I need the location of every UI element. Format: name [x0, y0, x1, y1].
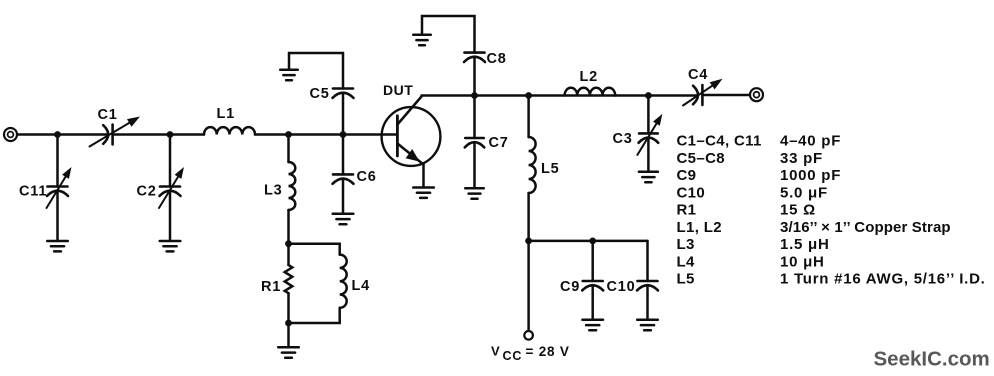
capacitor C2 arrow [159, 167, 184, 208]
label C4 [688, 67, 708, 83]
wire C7 lower [473, 142, 476, 188]
label DUT [383, 82, 413, 98]
label C1 [98, 107, 118, 123]
capacitor C10 plates [637, 281, 658, 290]
svg-text:C6: C6 [357, 169, 377, 185]
wire C9 upper [591, 241, 594, 281]
ground below C5 wire [280, 70, 298, 80]
wire to ground below R1 [287, 323, 290, 347]
capacitor C1 arrow [90, 117, 141, 147]
wire C9 lower [591, 285, 594, 319]
node C2 junction [167, 131, 174, 138]
label C6 [357, 169, 377, 185]
ground below C9 [582, 320, 603, 330]
label C8 [487, 51, 507, 67]
node bottom rail [525, 238, 532, 245]
svg-text:33 pF: 33 pF [780, 150, 823, 167]
node L5 junction [525, 92, 532, 99]
svg-text:C8: C8 [487, 51, 507, 67]
capacitor C2 plates [160, 187, 181, 196]
wire R1 to bottom node [287, 293, 290, 323]
svg-text:5.0 μF: 5.0 μF [780, 184, 828, 201]
svg-text:C7: C7 [489, 135, 509, 151]
svg-text:1 Turn #16 AWG, 5/16’’ I.D.: 1 Turn #16 AWG, 5/16’’ I.D. [780, 271, 986, 288]
label L3 [264, 183, 283, 199]
svg-text:C2: C2 [137, 184, 157, 200]
svg-text:1.5 μH: 1.5 μH [780, 236, 830, 253]
label R1 [261, 279, 281, 295]
wire L1 to transistor base [255, 133, 397, 136]
svg-text:CC: CC [503, 349, 523, 363]
label C5 [310, 86, 330, 102]
ground below C7 [465, 188, 484, 198]
svg-text:C4: C4 [688, 67, 708, 83]
svg-text:C1–C4, C11: C1–C4, C11 [677, 133, 762, 150]
label C11 [19, 184, 47, 200]
node input/C11 junction [54, 131, 61, 138]
ground below C6 [333, 214, 354, 224]
svg-text:C9: C9 [560, 279, 580, 295]
wire emitter to ground [422, 165, 425, 187]
capacitor C4 [693, 85, 702, 105]
svg-text:C5: C5 [310, 86, 330, 102]
label C9 [560, 279, 580, 295]
capacitor C7 plates [465, 138, 485, 147]
inductor L1 [204, 127, 255, 134]
wire L3 branch upper [287, 135, 290, 163]
node C9 junction [589, 238, 596, 245]
capacitor C11 arrow [47, 167, 72, 208]
wire C3 lower [647, 138, 650, 172]
svg-text:C1: C1 [98, 107, 118, 123]
capacitor C11 plates [47, 187, 68, 196]
svg-text:L4: L4 [677, 253, 696, 270]
capacitor C3 arrow [637, 114, 662, 155]
capacitor C1 [103, 125, 112, 145]
wire node to R1 [287, 244, 290, 265]
label L2 [580, 69, 599, 85]
transistor DUT emitter [397, 144, 423, 165]
svg-text:L1, L2: L1, L2 [677, 219, 722, 236]
label C7 [489, 135, 509, 151]
label L4 [352, 278, 371, 294]
node C3 junction [645, 92, 652, 99]
wire C3 upper [647, 96, 650, 134]
svg-text:R1: R1 [677, 202, 697, 219]
wire C8 lower [473, 57, 476, 96]
svg-text:C9: C9 [677, 167, 697, 184]
wire C11 branch lower [56, 191, 59, 241]
wire to Vcc terminal [527, 241, 530, 331]
wire input to C1 [17, 133, 108, 136]
ground below C8 wire [413, 35, 431, 45]
svg-text:10 μH: 10 μH [780, 253, 825, 270]
wire bottom rail [529, 240, 648, 243]
inductor L2 [565, 88, 616, 96]
inductor L5 [529, 137, 536, 193]
SeekIC.com watermark [874, 348, 990, 371]
ground below C10 [637, 320, 658, 330]
ground below C3 [639, 172, 658, 182]
wire C10 upper [646, 241, 649, 281]
ground below C11 [47, 241, 68, 251]
node R1/L4 bottom [285, 320, 292, 327]
wire L5 upper [527, 96, 530, 138]
svg-text:C5–C8: C5–C8 [677, 150, 725, 167]
node L3 junction [285, 131, 292, 138]
wire C1 to L1 [113, 133, 204, 136]
capacitor C3 plates [639, 133, 659, 142]
transistor DUT emitter arrow [406, 149, 420, 162]
capacitor C9 plates [582, 281, 603, 290]
wire C4 to output [702, 94, 749, 97]
node C5/C6 junction [340, 131, 347, 138]
label C3 [613, 131, 633, 147]
svg-text:R1: R1 [261, 279, 281, 295]
svg-text:4–40 pF: 4–40 pF [780, 133, 841, 150]
svg-text:L3: L3 [677, 236, 695, 253]
inductor L4 [340, 255, 347, 308]
wire L3 branch lower [287, 210, 290, 244]
svg-text:C11: C11 [19, 184, 47, 200]
output connector J2 [750, 88, 763, 101]
wire L5 lower [527, 193, 530, 241]
label L5 [541, 161, 560, 177]
wire C5 upper to top [289, 53, 343, 89]
wire C2 branch upper [169, 135, 172, 187]
wire C2 branch lower [169, 191, 172, 241]
node C8/C7 junction [471, 92, 478, 99]
inductor L3 [289, 162, 296, 210]
transistor DUT base bar [396, 116, 399, 156]
svg-text:C3: C3 [613, 131, 633, 147]
parts list table [677, 133, 986, 288]
svg-text:L2: L2 [580, 69, 599, 85]
svg-text:3/16’’ × 1’’ Copper Strap: 3/16’’ × 1’’ Copper Strap [780, 219, 951, 236]
ground below C2 [160, 241, 181, 251]
wire C8 upper to top [422, 16, 475, 53]
wire C7 upper [473, 96, 476, 139]
svg-text:L1: L1 [217, 106, 236, 122]
capacitor C4 arrow [683, 79, 723, 106]
label L1 [217, 106, 236, 122]
svg-text:SeekIC.com: SeekIC.com [874, 348, 990, 371]
svg-text:1000 pF: 1000 pF [780, 167, 841, 184]
input connector J1 [4, 128, 17, 141]
svg-text:L4: L4 [352, 278, 371, 294]
resistor R1 [285, 265, 293, 293]
wire C10 lower [646, 285, 649, 319]
label C2 [137, 184, 157, 200]
svg-text:= 28 V: = 28 V [526, 344, 570, 359]
inductor L4 loop wires [289, 244, 340, 323]
wire C11 branch upper [56, 135, 59, 187]
svg-text:V: V [491, 344, 500, 359]
svg-text:L5: L5 [541, 161, 560, 177]
transistor DUT body [382, 107, 441, 166]
label Vcc = 28 V [491, 344, 570, 364]
label C10 [607, 279, 636, 295]
svg-text:15 Ω: 15 Ω [780, 202, 816, 219]
svg-text:L3: L3 [264, 183, 283, 199]
transistor DUT collector [397, 97, 421, 125]
svg-text:C10: C10 [607, 279, 636, 295]
node R1/L4 top [285, 240, 292, 247]
wire C6 upper [342, 135, 345, 175]
Vcc terminal [524, 331, 533, 340]
ground below R1 [278, 347, 299, 357]
svg-text:C10: C10 [677, 184, 706, 201]
svg-text:DUT: DUT [383, 82, 413, 98]
svg-text:L5: L5 [677, 271, 695, 288]
capacitor C5 plates [333, 89, 354, 98]
wire C5 lower [342, 93, 345, 135]
wire C6 lower [342, 179, 345, 214]
capacitor C8 plates [464, 53, 485, 62]
ground below emitter [413, 188, 434, 198]
wire collector rail [422, 94, 698, 97]
capacitor C6 plates [333, 174, 354, 183]
